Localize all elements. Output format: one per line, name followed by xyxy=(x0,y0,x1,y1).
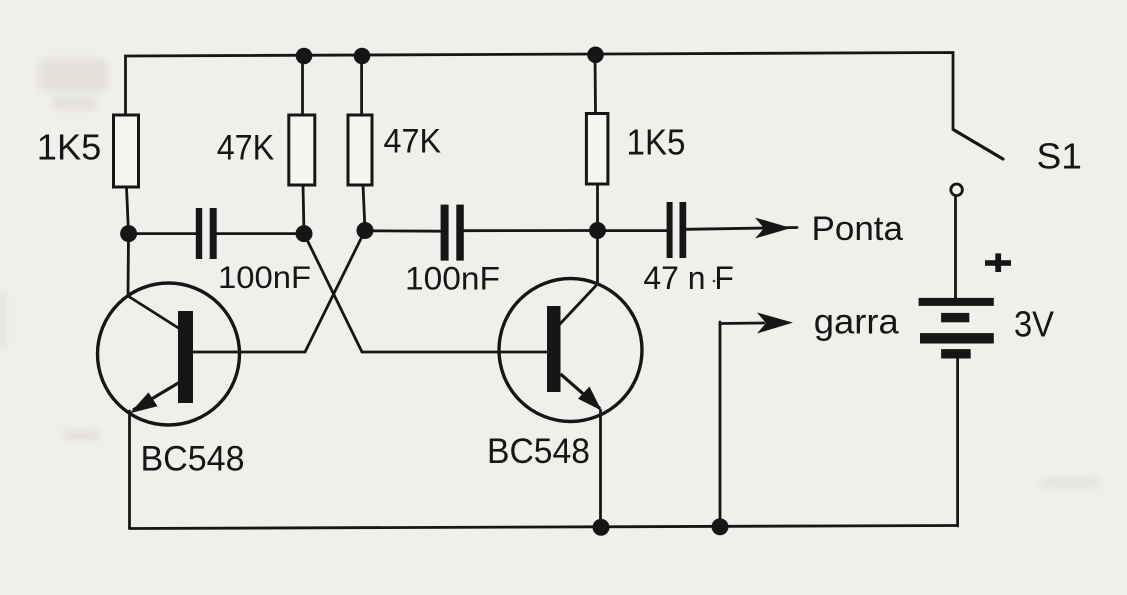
wire garra arrow horizontal xyxy=(720,322,764,325)
switch S1 terminal circle xyxy=(951,184,963,196)
capacitor C2 100nF plates xyxy=(441,205,464,261)
svg-text:S1: S1 xyxy=(1037,136,1083,177)
svg-text:100nF: 100nF xyxy=(218,259,311,295)
svg-text:3V: 3V xyxy=(1014,304,1054,345)
switch S1 blade xyxy=(954,130,1003,159)
svg-text:BC548: BC548 xyxy=(141,439,245,479)
resistor R1 1K5 body xyxy=(114,115,139,187)
wire R1 bottom lead to node A and Q1 collector xyxy=(127,187,129,296)
Ponta output arrowhead xyxy=(755,218,791,239)
wire Q2 collector diagonal xyxy=(559,284,598,325)
wire cross-couple diagonal node B to Q2 base xyxy=(304,234,362,352)
wire C2 right plate to node D xyxy=(464,229,598,232)
node D xyxy=(589,222,606,239)
wire Q1 emitter vertical xyxy=(128,411,131,528)
wire node D to C3 left plate xyxy=(598,229,667,232)
wire R4 bottom lead xyxy=(596,184,599,231)
wire R3 bottom lead xyxy=(363,185,365,231)
svg-text:47 n F: 47 n F xyxy=(643,260,734,296)
capacitor C3 47nF plates xyxy=(667,202,687,258)
wire battery positive lead xyxy=(954,196,957,299)
wire Q2 base horizontal xyxy=(362,351,547,354)
node top rail right junction xyxy=(587,47,604,64)
wire garra tap vertical xyxy=(719,322,722,528)
wire R4 top lead xyxy=(594,54,597,114)
svg-text:BC548: BC548 xyxy=(487,431,590,471)
node A xyxy=(120,225,137,242)
resistor R4 1K5 body xyxy=(586,114,608,185)
node B xyxy=(296,225,313,242)
wire R2 bottom lead xyxy=(303,185,304,234)
wire battery negative lead xyxy=(956,358,959,526)
svg-text:47K: 47K xyxy=(384,123,442,161)
wire Q2 emitter vertical xyxy=(599,410,602,528)
wire node C to C2 left plate xyxy=(365,229,441,232)
svg-text:Ponta: Ponta xyxy=(812,210,904,248)
wire Q1 collector diagonal xyxy=(128,296,180,329)
svg-text:garra: garra xyxy=(814,303,900,342)
svg-text:1K5: 1K5 xyxy=(37,127,102,168)
transistor Q2 BC548 xyxy=(499,279,642,422)
node C xyxy=(357,222,374,239)
wire node A to C1 left plate xyxy=(129,232,196,235)
svg-text:47K: 47K xyxy=(217,129,275,168)
wire R3 top lead xyxy=(360,54,363,115)
svg-text:1K5: 1K5 xyxy=(627,122,686,163)
capacitor C1 100nF plates xyxy=(196,208,217,259)
wire C3 right plate to Ponta arrow xyxy=(686,228,797,230)
label 47nF speck xyxy=(713,280,716,283)
battery BT1 3V plates xyxy=(919,298,994,359)
transistor Q1 BC548 xyxy=(98,283,240,425)
node bottom rail Q2 emitter xyxy=(593,519,610,536)
wire top supply rail xyxy=(126,53,954,130)
wire Q1 base horizontal xyxy=(193,351,305,354)
wire R2 top lead xyxy=(301,54,304,115)
svg-text:100nF: 100nF xyxy=(405,261,500,297)
resistor R2 47K body xyxy=(289,115,315,185)
wire C1 right plate to node B xyxy=(217,232,304,235)
garra output arrowhead xyxy=(757,313,793,334)
node bottom rail garra tap xyxy=(712,518,729,535)
node top rail middle junction xyxy=(354,48,371,65)
wire Q2 collector vertical xyxy=(596,231,599,285)
node top rail left junction xyxy=(296,48,313,65)
wire bottom ground rail xyxy=(130,526,958,529)
battery BT1 plus sign xyxy=(985,253,1011,272)
resistor R3 47K body xyxy=(348,115,372,185)
wire cross-couple diagonal node C to Q1 base xyxy=(305,231,365,353)
